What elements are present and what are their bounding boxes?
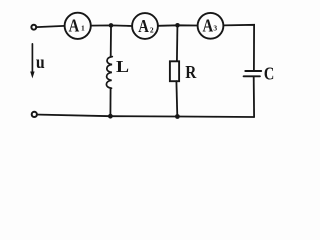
svg-text:A: A [203, 17, 214, 35]
inductor L [106, 57, 112, 89]
wire (terminal to A1) [36, 26, 64, 27]
svg-text:A: A [138, 18, 149, 36]
ammeter A2 [132, 13, 158, 39]
wire (L branch, top) [110, 28, 112, 57]
resistor R [170, 61, 179, 81]
wire (A2 to A3) [158, 24, 198, 27]
node (bottom junction at R branch) [175, 114, 180, 119]
svg-text:L: L [116, 57, 129, 76]
terminal (top-left input) [31, 25, 36, 30]
svg-text:2: 2 [150, 25, 154, 34]
node (top junction at R branch) [175, 23, 180, 28]
ammeter A3 [198, 13, 224, 39]
wire (L branch, bottom) [109, 88, 111, 116]
svg-text:C: C [264, 63, 274, 84]
capacitor C [244, 71, 262, 76]
wire (bottom rail) [34, 115, 254, 118]
node (bottom junction at L branch) [108, 114, 113, 119]
wire (capacitor to bottom-right corner) [253, 77, 255, 117]
svg-text:1: 1 [81, 23, 85, 32]
wire (A3 to top-right corner, down to capacitor) [223, 25, 254, 70]
wire (R branch, bottom) [175, 81, 178, 116]
terminal (bottom-left input) [32, 112, 37, 117]
svg-text:R: R [185, 62, 197, 82]
svg-text:3: 3 [213, 24, 217, 33]
ammeter A1 [65, 13, 91, 39]
node (top junction at L branch) [109, 23, 114, 28]
wire (A1 to A2) [91, 24, 132, 27]
voltage arrow u [30, 44, 34, 79]
svg-text:u: u [36, 52, 45, 72]
wire (R branch, top) [176, 27, 179, 61]
svg-text:A: A [69, 17, 80, 35]
